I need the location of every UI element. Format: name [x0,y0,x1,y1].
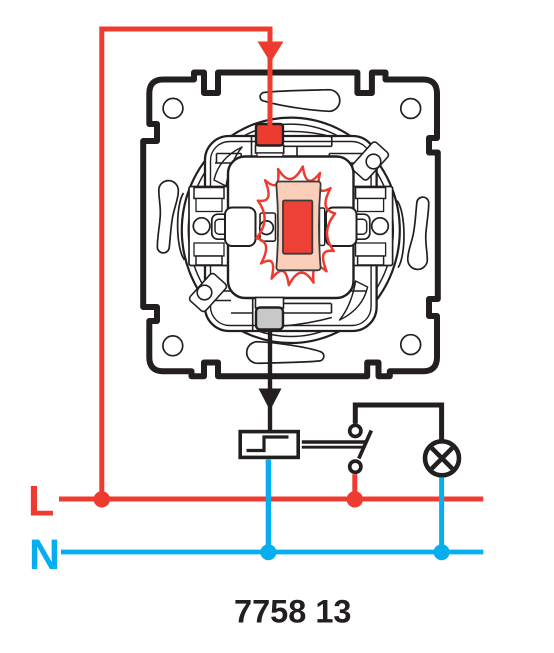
svg-text:L: L [28,478,54,526]
svg-text:7758 13: 7758 13 [234,594,351,630]
svg-text:N: N [29,531,60,579]
